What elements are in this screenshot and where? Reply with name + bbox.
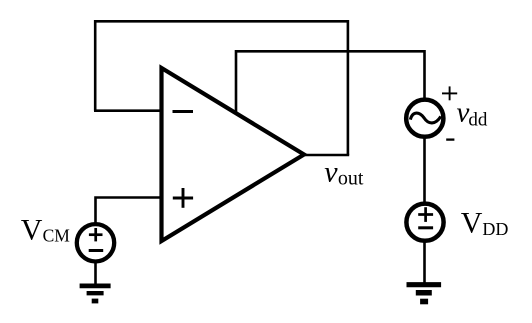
svg-text:CM: CM: [43, 226, 71, 246]
op-amp inverting input minus sign: [173, 110, 194, 113]
svg-text:v: v: [324, 156, 338, 189]
vdd polarity plus: [442, 86, 457, 100]
ground (left): [80, 286, 111, 301]
wire: feedback loop output to inverting input (right vertical, top horizontal, left vertical): [95, 21, 348, 155]
wire: non-inverting input from VCM source: [96, 198, 162, 224]
VCM plus sign: [89, 228, 103, 241]
VDD minus sign: [418, 226, 433, 229]
wire: VDD source to ground: [423, 242, 426, 284]
voltage source VCM circle: [77, 224, 114, 261]
wire: vdd source to VDD source: [423, 138, 426, 203]
wire: op-amp supply pin up and across to vdd source: [236, 51, 425, 113]
ac source vdd circle: [406, 100, 443, 137]
VDD plus sign: [418, 207, 433, 222]
wire: inverting input horizontal: [94, 109, 162, 112]
vdd polarity minus: [446, 138, 454, 140]
ground (right): [407, 285, 442, 302]
svg-text:dd: dd: [468, 110, 488, 131]
svg-text:out: out: [338, 167, 364, 189]
op-amp U1 triangle: [162, 68, 305, 241]
wire: VCM source to ground: [94, 262, 97, 285]
VCM minus sign: [89, 249, 104, 252]
wire: op-amp output to feedback vertical: [303, 154, 349, 157]
svg-text:DD: DD: [482, 219, 508, 239]
op-amp non-inverting input plus sign: [173, 188, 193, 208]
svg-text:V: V: [461, 207, 483, 240]
voltage source VDD circle: [406, 204, 443, 241]
ac source sine wave: [410, 113, 440, 123]
svg-text:V: V: [21, 213, 43, 246]
